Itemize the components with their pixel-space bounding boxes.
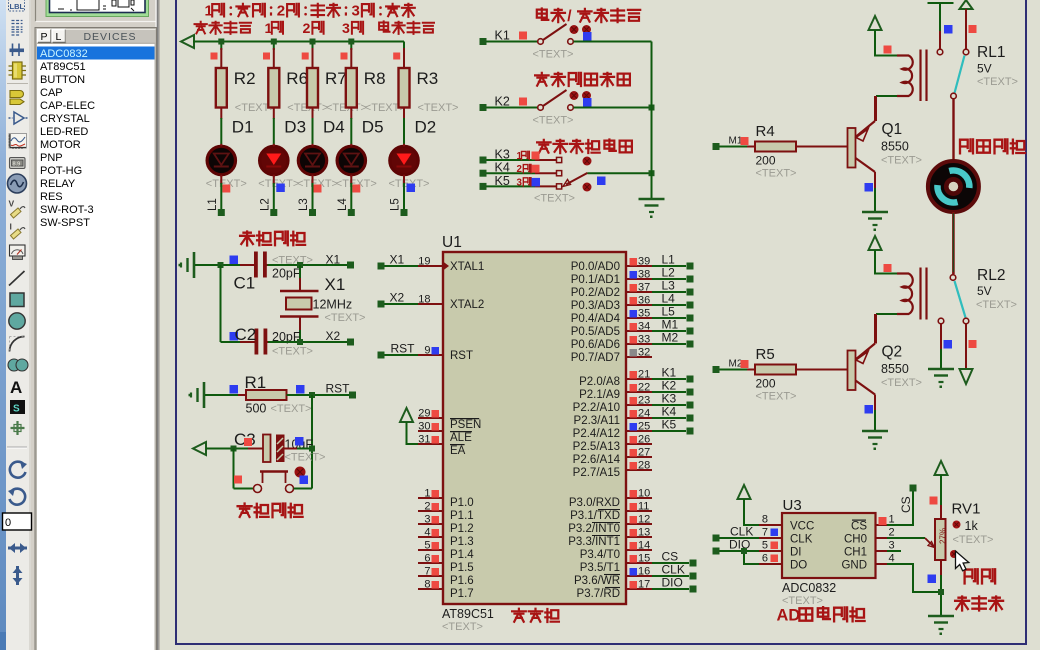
svg-text:<TEXT>: <TEXT> xyxy=(881,377,922,389)
marker square D2 xyxy=(407,184,416,193)
breakpoint marker R8 xyxy=(341,53,348,60)
svg-text:LED-RED: LED-RED xyxy=(40,126,88,138)
svg-text:6: 6 xyxy=(424,553,430,565)
pin 6 P1.5 xyxy=(418,562,443,564)
svg-text:<TEXT>: <TEXT> xyxy=(977,76,1018,88)
svg-text:15: 15 xyxy=(638,553,650,565)
breakpoint marker CS pin xyxy=(879,517,887,525)
power arrow RL2 xyxy=(869,236,882,250)
svg-text:Q1: Q1 xyxy=(882,121,903,138)
terminal L3 xyxy=(687,289,694,296)
svg-text:P3.6/WR: P3.6/WR xyxy=(574,575,620,587)
svg-text:CLK: CLK xyxy=(790,534,813,546)
wire net L4 xyxy=(652,304,686,306)
svg-text:P1.3: P1.3 xyxy=(450,536,474,548)
toolbar icon 2D line xyxy=(9,271,25,286)
svg-text:DIO: DIO xyxy=(662,576,683,590)
pin 10 P3.0/RXD xyxy=(626,497,652,499)
svg-text:23: 23 xyxy=(638,395,650,407)
svg-text:P1.6: P1.6 xyxy=(450,575,474,587)
svg-text:1: 1 xyxy=(424,488,430,500)
junction X2/crystal xyxy=(297,339,303,345)
svg-text:P0.2/AD2: P0.2/AD2 xyxy=(571,287,620,299)
toolbar icon subcircuit xyxy=(10,91,24,98)
terminal CLK (ADC) xyxy=(713,535,720,542)
terminal K2 xyxy=(480,104,487,111)
wire DIO xyxy=(720,550,760,552)
svg-text:D1: D1 xyxy=(232,118,254,137)
svg-text:R7: R7 xyxy=(325,69,347,88)
wire K4 xyxy=(487,172,536,174)
divider to schematic xyxy=(156,0,157,650)
net X1 to U1 xyxy=(378,263,385,270)
svg-text:<TEXT>: <TEXT> xyxy=(285,452,326,464)
resistor R3 xyxy=(399,68,410,108)
wire net CLK xyxy=(652,575,689,577)
terminal K2 xyxy=(687,389,694,396)
junction C3 right xyxy=(309,446,315,452)
svg-text:L5: L5 xyxy=(390,198,402,211)
terminal M1 (R4) xyxy=(713,143,720,150)
junction C3 left xyxy=(231,446,237,452)
svg-text:PSEN: PSEN xyxy=(450,419,481,431)
crystal X1 xyxy=(280,290,319,293)
marker square K3 xyxy=(532,152,540,160)
wire GND net xyxy=(887,564,938,592)
terminal K5 xyxy=(687,428,694,435)
red title text 手动雨刷开关 xyxy=(535,73,549,86)
wire net M2 xyxy=(652,343,686,345)
power arrow EA xyxy=(400,408,413,422)
svg-text:P1.1: P1.1 xyxy=(450,510,474,522)
svg-text:200: 200 xyxy=(756,377,776,391)
svg-text:DO: DO xyxy=(790,560,807,572)
breakpoint marker RL1 xyxy=(884,46,892,54)
toolbar icon generator xyxy=(8,174,27,193)
pin 26 P2.5/A13 xyxy=(626,443,652,445)
pin 22 P2.1/A9 xyxy=(626,391,652,393)
pin 7 P1.6 xyxy=(418,575,443,577)
breakpoint marker R2 xyxy=(211,53,218,60)
ground crystal xyxy=(193,252,196,278)
terminal K5 xyxy=(480,183,487,190)
wire R1 to RST terminal xyxy=(287,394,351,396)
wire CLK xyxy=(720,537,760,539)
junction node R2 xyxy=(218,39,224,45)
toolbar icon script xyxy=(12,21,23,36)
pin 1 P1.0 xyxy=(418,497,443,499)
pin 8 P1.7 xyxy=(418,588,443,590)
svg-text:L4: L4 xyxy=(662,292,676,306)
svg-text:27: 27 xyxy=(638,447,650,459)
ground switch bus xyxy=(639,198,665,201)
wire CH1 stub xyxy=(887,550,901,552)
wire RL1 pole top xyxy=(928,2,954,4)
wire LED supply rail xyxy=(193,41,404,43)
svg-text:AT89C51: AT89C51 xyxy=(40,61,86,73)
svg-text:10: 10 xyxy=(638,488,650,500)
svg-text:RL1: RL1 xyxy=(977,44,1005,61)
svg-text:3: 3 xyxy=(424,514,430,526)
power arrow RL1 contact xyxy=(960,0,973,9)
svg-text:L1: L1 xyxy=(207,198,219,211)
svg-text:P1.4: P1.4 xyxy=(450,549,474,561)
toolbar divider xyxy=(30,0,31,650)
power arrow U3 VCC xyxy=(738,485,751,499)
pin 2 CH0 xyxy=(876,537,888,539)
svg-text:K1: K1 xyxy=(495,29,510,43)
svg-text:MOTOR: MOTOR xyxy=(40,139,81,151)
svg-text:ADC0832: ADC0832 xyxy=(782,581,836,595)
rotary contact K4 xyxy=(557,171,562,176)
wire R4 to Q1 base xyxy=(747,146,755,148)
svg-text:DI: DI xyxy=(790,547,802,559)
svg-text:CRYSTAL: CRYSTAL xyxy=(40,113,90,125)
wire RV1 top xyxy=(940,475,942,505)
svg-text:P1.7: P1.7 xyxy=(450,588,474,600)
red title text 复位电路 xyxy=(238,504,252,517)
wire arrow to C3 xyxy=(206,448,249,450)
svg-text:K2: K2 xyxy=(662,379,677,393)
svg-text:P3.1/TXD: P3.1/TXD xyxy=(570,510,620,522)
switch K1 operators xyxy=(570,25,579,34)
svg-text:L: L xyxy=(56,31,62,43)
pin 16 P3.6/WR xyxy=(626,575,652,577)
net RST to U1 xyxy=(378,352,385,359)
svg-text:2: 2 xyxy=(517,164,523,175)
marker square C1 xyxy=(230,256,239,265)
svg-text:XTAL1: XTAL1 xyxy=(450,261,484,273)
svg-text:3: 3 xyxy=(352,3,360,20)
pin 28 P2.7/A15 xyxy=(626,469,652,471)
toolbar icon marker xyxy=(11,421,25,435)
terminal K1 xyxy=(687,376,694,383)
red title text 晶振电路 xyxy=(240,232,254,246)
svg-text:<TEXT>: <TEXT> xyxy=(756,391,797,403)
svg-text:S: S xyxy=(13,404,20,415)
svg-text:35: 35 xyxy=(638,308,650,320)
toolbar background xyxy=(0,0,160,650)
pin 33 P0.6/AD6 xyxy=(626,343,652,345)
svg-text:C1: C1 xyxy=(234,274,256,293)
svg-text:3: 3 xyxy=(517,177,523,188)
pin 30 ALE xyxy=(418,430,443,432)
svg-text:33: 33 xyxy=(638,334,650,346)
svg-text:28: 28 xyxy=(638,460,650,472)
svg-text:L3: L3 xyxy=(298,198,310,211)
toolbar icon instrument xyxy=(10,245,26,256)
wire branch R3 xyxy=(403,42,405,51)
svg-text:P0.1/AD1: P0.1/AD1 xyxy=(571,274,620,286)
wire net CS xyxy=(652,562,689,564)
pin 35 P0.4/AD4 xyxy=(626,317,652,319)
terminal CS xyxy=(690,560,697,567)
wire motor bottom xyxy=(952,212,955,274)
wire K1 left xyxy=(487,41,539,43)
wire VCC xyxy=(744,499,759,525)
pin 21 P2.0/A8 xyxy=(626,378,652,380)
svg-text:CAP: CAP xyxy=(40,87,63,99)
svg-text:8: 8 xyxy=(762,514,768,526)
svg-text:X1: X1 xyxy=(325,275,346,294)
wire Q1 collector to ground xyxy=(874,172,876,188)
svg-text:37: 37 xyxy=(638,282,650,294)
svg-text:AT89C51: AT89C51 xyxy=(442,607,494,621)
pin 24 P2.3/A11 xyxy=(626,417,652,419)
svg-text:0: 0 xyxy=(5,517,11,529)
toolbar icon component xyxy=(13,62,23,79)
pin 5 P1.4 xyxy=(418,549,443,551)
ground RV1 xyxy=(928,615,954,618)
svg-text:RST: RST xyxy=(450,350,473,362)
breakpoint marker R7 xyxy=(302,53,309,60)
pin 2 P1.1 xyxy=(418,510,443,512)
svg-text:<TEXT>: <TEXT> xyxy=(442,621,483,633)
junction node R6 xyxy=(271,39,277,45)
svg-text:P1.0: P1.0 xyxy=(450,497,474,509)
relay core RL2 xyxy=(919,268,921,320)
svg-text:24: 24 xyxy=(638,408,650,420)
pin 9 RST xyxy=(418,354,443,356)
wire gnd to R1 xyxy=(205,394,246,396)
marker square D1 xyxy=(222,185,230,193)
svg-text:R5: R5 xyxy=(756,346,775,363)
ground R1 xyxy=(203,382,206,408)
wire EA supply xyxy=(407,422,419,444)
svg-text:<TEXT>: <TEXT> xyxy=(953,534,994,546)
wire net L3 xyxy=(652,291,686,293)
svg-text:RST: RST xyxy=(326,382,351,396)
wire Q1 emitter to coil xyxy=(874,96,876,121)
svg-text:1k: 1k xyxy=(965,519,979,533)
wire net K3 xyxy=(652,404,686,406)
svg-text:9: 9 xyxy=(424,345,430,357)
marker squares button xyxy=(234,476,242,484)
terminal L3 xyxy=(309,209,316,216)
svg-text:P0.5/AD5: P0.5/AD5 xyxy=(571,326,620,338)
wire gnd to C1/C2 node xyxy=(195,264,255,266)
wire RL1 contact to motor xyxy=(952,99,954,162)
svg-text:SW-SPST: SW-SPST xyxy=(40,217,90,229)
wire CH0 to RV1 wiper xyxy=(887,537,925,539)
wire net K2 xyxy=(652,391,686,393)
terminal RST (reset side) xyxy=(349,392,356,399)
svg-text:P1.5: P1.5 xyxy=(450,562,474,574)
svg-text:31: 31 xyxy=(418,434,430,446)
junction DIO/DO xyxy=(741,548,747,554)
terminal K1 xyxy=(480,38,487,45)
pin 4 GND xyxy=(876,563,888,565)
svg-text:5: 5 xyxy=(762,540,768,552)
svg-text:/: / xyxy=(567,8,572,25)
svg-text:R4: R4 xyxy=(756,123,775,140)
wire net K1 xyxy=(652,378,686,380)
wire coil RL2 bottom xyxy=(876,313,897,315)
svg-text:8.9: 8.9 xyxy=(13,161,21,167)
svg-text:P2.1/A9: P2.1/A9 xyxy=(579,389,620,401)
svg-text:XTAL2: XTAL2 xyxy=(450,299,484,311)
toolbar icon rotate ccw xyxy=(10,489,26,505)
svg-text:X1: X1 xyxy=(326,253,341,267)
svg-text:CLK: CLK xyxy=(662,563,685,577)
junction node R8 xyxy=(348,39,354,45)
toolbar icon bus terminal xyxy=(10,49,25,53)
power terminal C3 (left arrow) xyxy=(193,442,206,455)
pin 1 CS xyxy=(876,524,888,526)
svg-text:RV1: RV1 xyxy=(952,501,981,518)
svg-text:RST: RST xyxy=(391,342,416,356)
wire net L1 xyxy=(652,265,686,267)
svg-text:20pF: 20pF xyxy=(272,267,301,281)
wire button branch left xyxy=(233,449,235,489)
svg-text:4: 4 xyxy=(889,553,895,565)
wire K2 right to bus xyxy=(574,107,652,109)
svg-text:A: A xyxy=(10,378,22,397)
svg-text:RES: RES xyxy=(40,191,63,203)
pin name overlines xyxy=(598,509,620,511)
svg-text:P3.3/INT1: P3.3/INT1 xyxy=(568,536,620,548)
terminal M1 xyxy=(687,328,694,335)
terminal L1 xyxy=(218,209,225,216)
svg-text:K3: K3 xyxy=(662,392,677,406)
svg-text:<TEXT>: <TEXT> xyxy=(272,346,313,358)
overview mini schematic xyxy=(58,0,134,11)
pin 3 P1.2 xyxy=(418,523,443,525)
button L xyxy=(52,30,66,43)
terminal DIO (ADC) xyxy=(713,548,720,555)
wire R7 to D4 xyxy=(312,108,314,120)
power arrow RV1 xyxy=(935,461,948,475)
svg-text:RELAY: RELAY xyxy=(40,178,76,190)
toolbar icon symbol xyxy=(10,400,25,414)
svg-text:L5: L5 xyxy=(662,305,676,319)
svg-text:6: 6 xyxy=(762,553,768,565)
svg-text:500: 500 xyxy=(246,402,267,416)
breakpoint marker R6 xyxy=(263,53,270,60)
wire M1 to R4 xyxy=(720,146,756,148)
svg-text:<TEXT>: <TEXT> xyxy=(976,299,1017,311)
svg-text:P0.6/AD6: P0.6/AD6 xyxy=(571,339,620,351)
svg-text:P0.3/AD3: P0.3/AD3 xyxy=(571,300,620,312)
wire DO to DIO net xyxy=(744,551,759,564)
relay coil RL2 xyxy=(897,274,913,315)
breakpoint marker RL2 xyxy=(884,264,892,272)
pin 17 P3.7/RD xyxy=(626,588,652,590)
svg-text:16: 16 xyxy=(638,566,650,578)
svg-text:D2: D2 xyxy=(415,118,437,137)
rotary contact K3 xyxy=(557,157,562,162)
terminal M2 (R5) xyxy=(713,366,720,373)
resistor R1 xyxy=(238,394,246,396)
wire R8 to D5 xyxy=(350,108,352,120)
wire Q2 collector to ground xyxy=(874,395,876,411)
toolbar icon mirror x xyxy=(8,547,27,550)
svg-text:39: 39 xyxy=(638,256,650,268)
svg-text:27%: 27% xyxy=(939,528,948,544)
wire RL2 pole NC down-left xyxy=(940,324,942,349)
switch K2 xyxy=(538,105,544,111)
marker square Q2 xyxy=(865,405,874,414)
svg-text:X2: X2 xyxy=(390,291,405,305)
svg-text:<TEXT>: <TEXT> xyxy=(533,49,574,61)
svg-text:AD: AD xyxy=(777,606,801,624)
net X2 to U1 xyxy=(378,301,385,308)
junction RST xyxy=(309,392,315,398)
svg-text:<TEXT>: <TEXT> xyxy=(533,115,574,127)
op-chip U3 ADC0832 body xyxy=(782,513,876,578)
svg-text:30: 30 xyxy=(418,421,430,433)
pin 5 DI xyxy=(759,550,782,552)
svg-text:8: 8 xyxy=(424,579,430,591)
svg-text:R1: R1 xyxy=(245,373,267,392)
pin 12 P3.2/INT0 xyxy=(626,523,652,525)
svg-text:K4: K4 xyxy=(662,405,677,419)
terminal X2 (crystal side) xyxy=(347,339,354,346)
terminal L2 xyxy=(270,209,277,216)
wire K3 xyxy=(487,159,536,161)
pin 18 XTAL2 xyxy=(418,303,443,305)
junction node R7 xyxy=(310,39,316,45)
svg-text:P0.0/AD0: P0.0/AD0 xyxy=(571,261,620,273)
red title text 传感器 xyxy=(955,597,969,611)
toolbar icon graph xyxy=(9,134,27,149)
wire K5 xyxy=(487,185,536,187)
svg-text:P2.4/A12: P2.4/A12 xyxy=(573,428,620,440)
svg-text:2: 2 xyxy=(303,21,311,37)
svg-text:DEVICES: DEVICES xyxy=(83,31,136,43)
capacitor C1 xyxy=(240,264,254,266)
RV1 wiper xyxy=(925,538,934,547)
marker square K1 xyxy=(583,32,592,41)
svg-text:K5: K5 xyxy=(495,174,510,188)
toolbar icon tape recorder xyxy=(10,158,26,169)
wire R2 to D1 xyxy=(220,108,222,120)
svg-text:4: 4 xyxy=(424,527,430,539)
terminal L1 xyxy=(687,263,694,270)
svg-text:P0.4/AD4: P0.4/AD4 xyxy=(571,313,621,325)
ground Q2 xyxy=(862,430,888,433)
toolbar icon LBL xyxy=(9,0,25,11)
wire RL2 NO right xyxy=(965,324,967,368)
svg-text:<TEXT>: <TEXT> xyxy=(782,595,823,607)
svg-text:8550: 8550 xyxy=(881,140,909,154)
wire button right xyxy=(294,488,313,490)
svg-text:12MHz: 12MHz xyxy=(313,298,353,312)
pin 4 P1.3 xyxy=(418,536,443,538)
terminal L2 xyxy=(687,276,694,283)
svg-text:L4: L4 xyxy=(337,198,349,211)
junction bus at K2 xyxy=(649,105,655,111)
pin 27 P2.6/A14 xyxy=(626,456,652,458)
svg-text:18: 18 xyxy=(418,294,430,306)
toolbar icon mirror y xyxy=(16,566,19,585)
svg-text:U1: U1 xyxy=(442,234,462,251)
svg-text:P2.7/A15: P2.7/A15 xyxy=(573,467,620,479)
wire D1 to terminal L1 xyxy=(220,176,222,184)
ground RL2 contact xyxy=(928,368,954,371)
svg-text:P3.0/RXD: P3.0/RXD xyxy=(569,497,620,509)
wire branch R2 xyxy=(220,42,222,51)
ground Q1 xyxy=(862,211,888,214)
red title text 手动档位选择 xyxy=(537,140,551,153)
svg-text:CS: CS xyxy=(851,521,867,533)
wire C3 right xyxy=(285,448,299,450)
toolbar icon 2D box xyxy=(10,293,24,307)
wire M2 to R5 xyxy=(720,369,756,371)
terminal CS (ADC) xyxy=(910,485,917,492)
svg-text:U3: U3 xyxy=(783,497,802,514)
svg-text:34: 34 xyxy=(638,321,650,333)
